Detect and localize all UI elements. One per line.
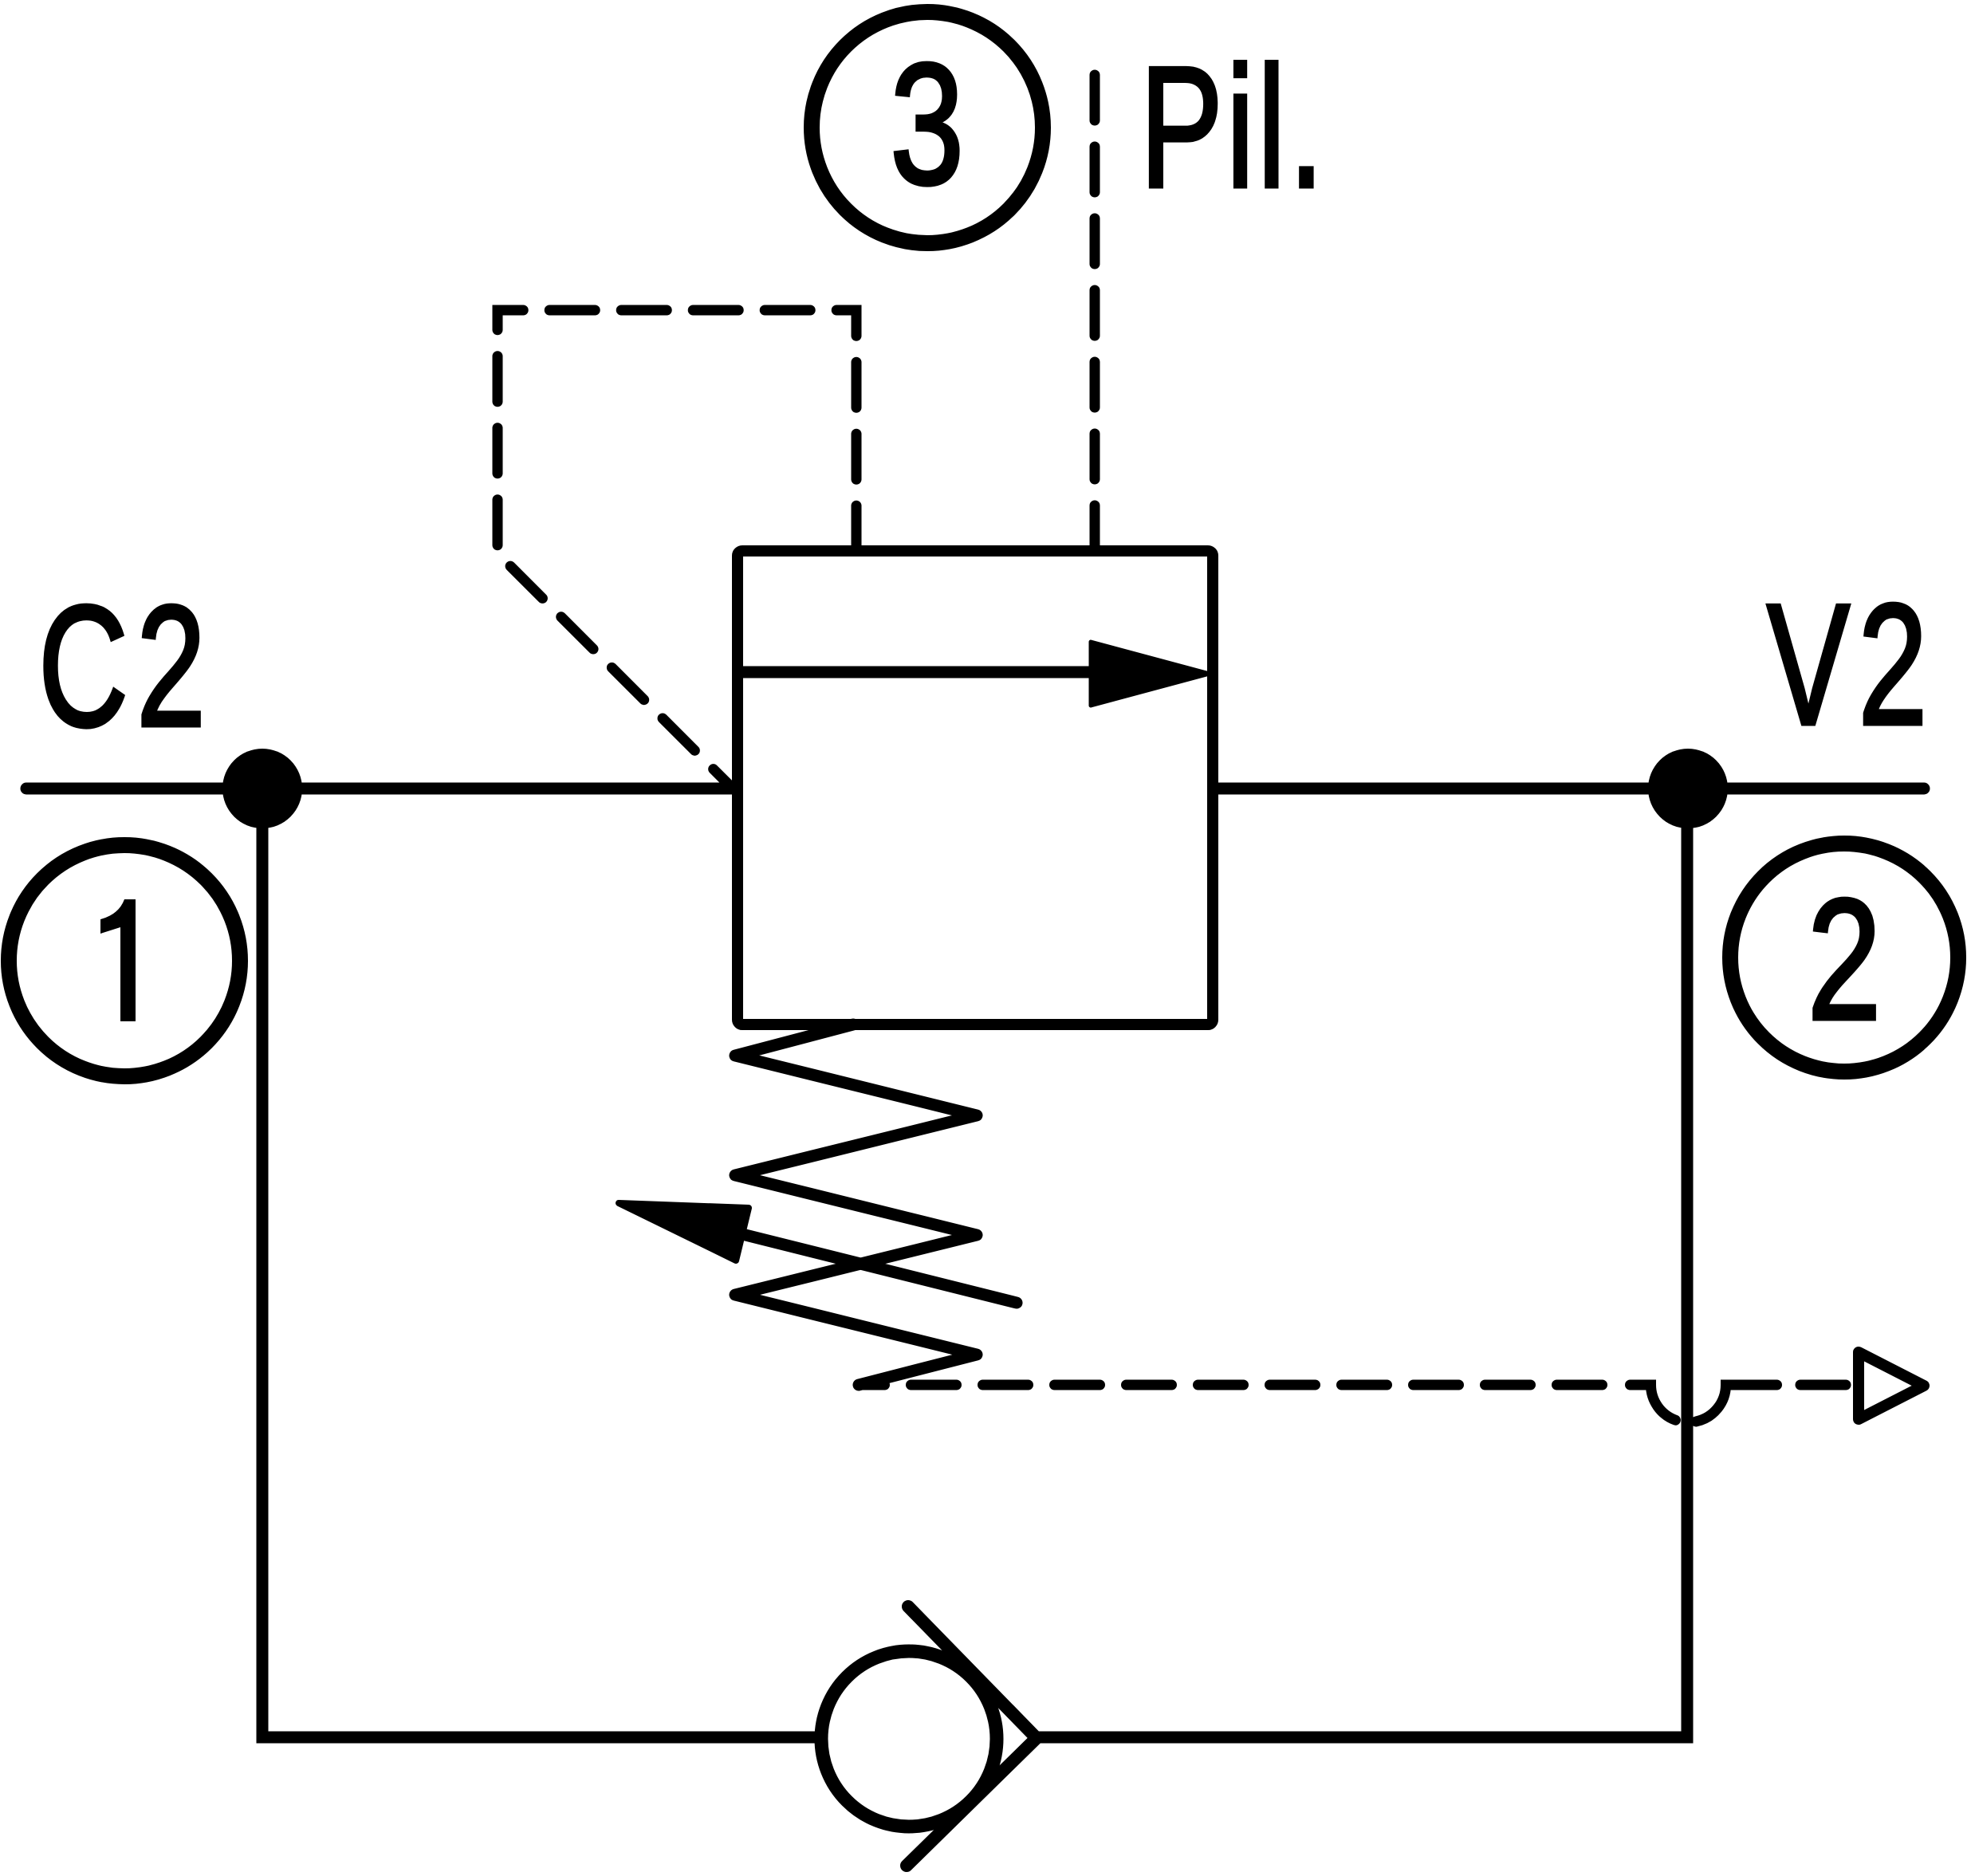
pilot port dashed line (port 3) bbox=[1090, 75, 1100, 551]
svg-text:3: 3 bbox=[890, 27, 963, 220]
label Pil. bbox=[1140, 31, 1328, 223]
port number 3 bbox=[890, 27, 963, 220]
port number 1 bbox=[100, 899, 136, 1021]
svg-text:C2: C2 bbox=[38, 570, 214, 762]
spring bbox=[735, 1025, 977, 1385]
svg-text:Pil.: Pil. bbox=[1140, 31, 1328, 223]
pilot drain hop left piece bbox=[1631, 1385, 1676, 1420]
port number 2 bbox=[1808, 863, 1881, 1056]
svg-text:2: 2 bbox=[1808, 863, 1881, 1056]
check valve seat bbox=[907, 1607, 1037, 1866]
adjustment arrowhead bbox=[619, 1203, 749, 1260]
port circle 1 bbox=[9, 845, 240, 1076]
port circle 2 bbox=[1730, 844, 1958, 1072]
wire: main line C2 side bbox=[26, 783, 738, 795]
check valve circle bbox=[821, 1651, 997, 1827]
pilot drain hop right piece bbox=[1696, 1385, 1777, 1422]
pilot drain last dash bbox=[1800, 1380, 1846, 1390]
pilot drain open arrowhead bbox=[1859, 1352, 1924, 1419]
pilot drain dashed line bbox=[859, 1380, 1625, 1390]
adjustment arrow shaft bbox=[742, 1234, 1017, 1303]
wire: right vertical and bottom-right run bbox=[1036, 789, 1687, 1737]
port circle 3 bbox=[812, 12, 1043, 243]
valve body box bbox=[738, 551, 1213, 1025]
label V2 bbox=[1767, 568, 1936, 761]
pilot passage dashed hook bbox=[498, 310, 856, 788]
node 1 junction dot bbox=[222, 749, 302, 828]
flow direction arrowhead bbox=[1091, 642, 1210, 706]
svg-text:V2: V2 bbox=[1767, 568, 1936, 761]
wire: left vertical and bottom-left run bbox=[262, 789, 816, 1737]
node 2 junction dot bbox=[1648, 749, 1728, 828]
wire: main line V2 side bbox=[1213, 783, 1924, 795]
label C2 bbox=[38, 570, 214, 762]
flow path line inside valve bbox=[738, 667, 1108, 678]
